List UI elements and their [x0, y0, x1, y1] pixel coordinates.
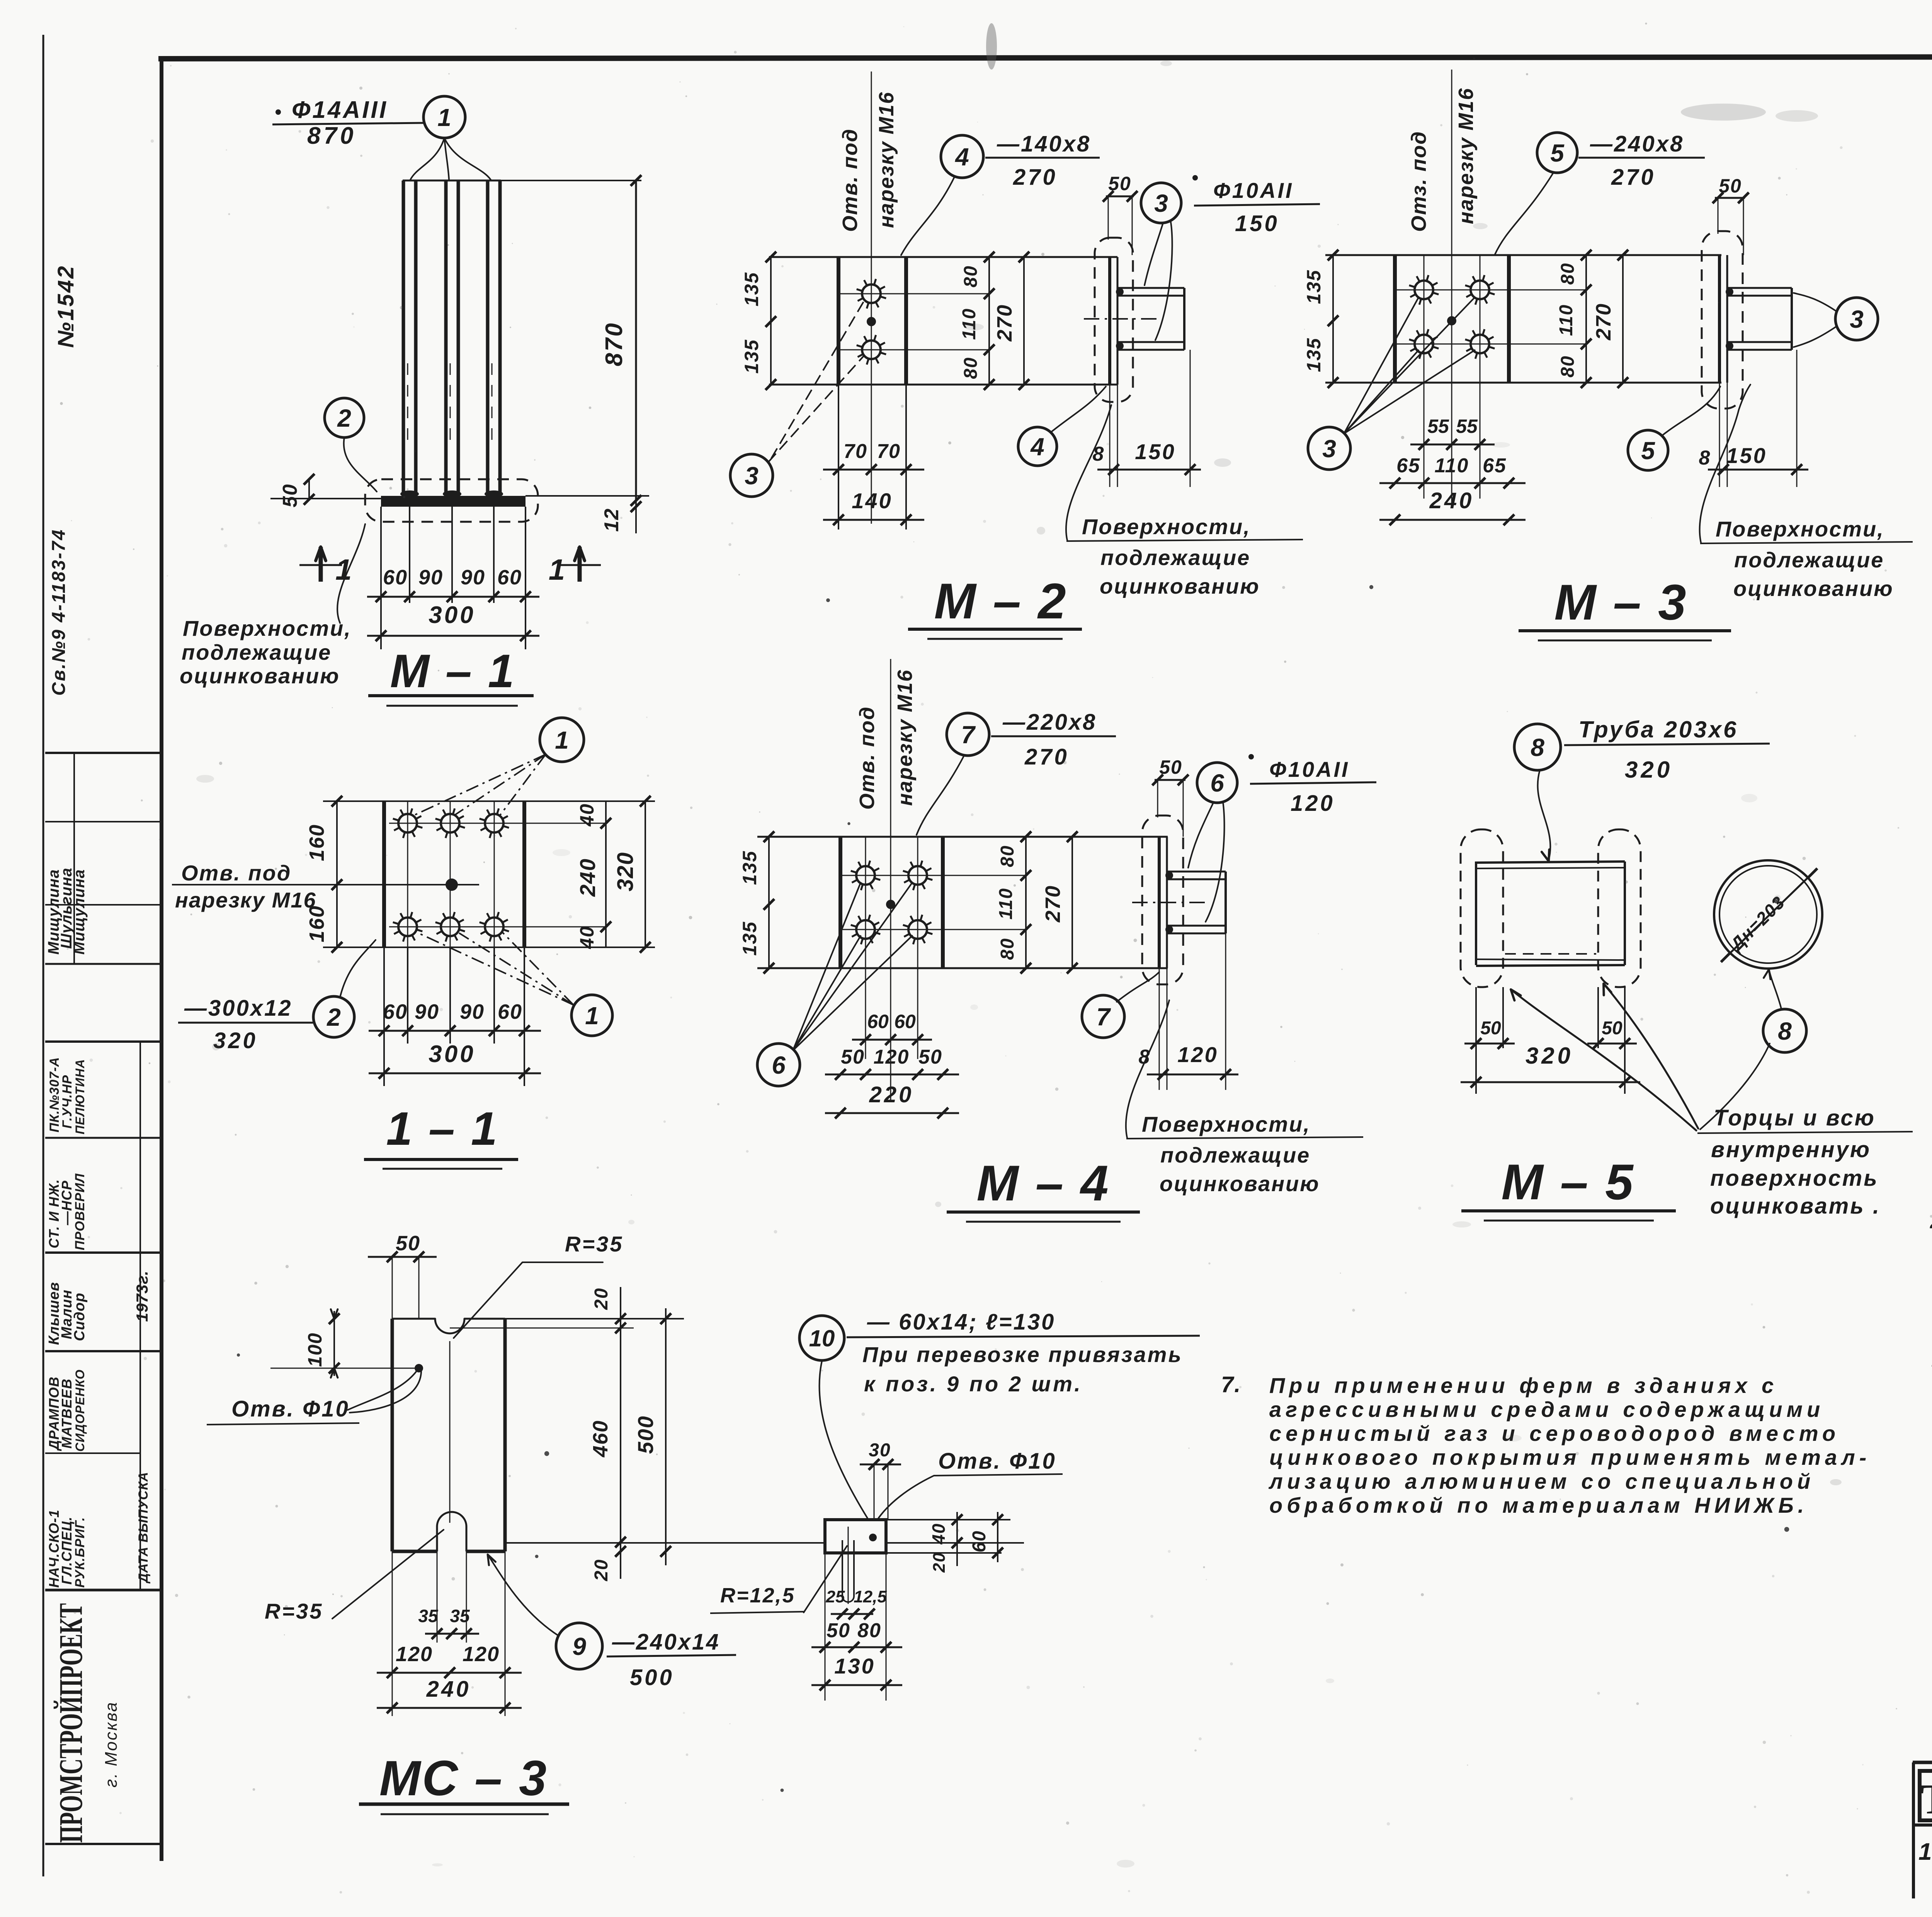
svg-text:140: 140: [852, 489, 892, 513]
svg-text:нарезку М16: нарезку М16: [175, 888, 316, 912]
svg-text:Сидор: Сидор: [71, 1292, 88, 1341]
svg-text:120: 120: [463, 1643, 500, 1666]
svg-text:870: 870: [307, 123, 356, 149]
svg-text:R=35: R=35: [565, 1232, 623, 1256]
svg-text:5: 5: [1641, 437, 1655, 465]
svg-text:80: 80: [857, 1619, 881, 1642]
svg-text:Торцы и всю: Торцы и всю: [1714, 1105, 1876, 1130]
svg-text:90: 90: [461, 566, 485, 589]
svg-text:подлежащие: подлежащие: [1160, 1143, 1310, 1167]
svg-text:—220x8: —220x8: [1002, 710, 1097, 735]
svg-text:1973г.: 1973г.: [133, 1270, 151, 1322]
svg-text:80: 80: [997, 845, 1018, 867]
svg-text:9: 9: [572, 1633, 586, 1660]
svg-text:М – 2: М – 2: [934, 573, 1067, 629]
svg-text:ПЕЛЮТИНА: ПЕЛЮТИНА: [73, 1059, 87, 1134]
svg-text:8: 8: [1093, 443, 1105, 465]
svg-text:8: 8: [1778, 1017, 1792, 1045]
svg-text:2: 2: [337, 404, 351, 432]
svg-text:60: 60: [969, 1530, 990, 1552]
svg-text:55: 55: [1456, 415, 1478, 437]
svg-text:90: 90: [418, 566, 443, 589]
svg-text:При перевозке привязать: При перевозке привязать: [862, 1342, 1183, 1367]
svg-text:М – 5: М – 5: [1501, 1154, 1634, 1210]
svg-text:40: 40: [576, 803, 598, 827]
svg-text:Труба 203x6: Труба 203x6: [1578, 717, 1738, 742]
svg-text:сернистый газ и сероводород вм: сернистый газ и сероводород вместо: [1269, 1421, 1840, 1445]
svg-text:1973: 1973: [1918, 1839, 1932, 1865]
svg-text:35: 35: [450, 1606, 470, 1626]
svg-text:240: 240: [575, 858, 600, 897]
svg-text:ПРОВЕРИЛ: ПРОВЕРИЛ: [73, 1173, 87, 1250]
svg-text:70: 70: [844, 440, 867, 463]
svg-text:агрессивными средами содержа: агрессивными средами содержащими: [1269, 1397, 1824, 1422]
svg-text:20: 20: [591, 1559, 612, 1581]
svg-text:подлежащие: подлежащие: [1100, 545, 1250, 570]
svg-text:120: 120: [1177, 1042, 1218, 1067]
svg-text:50: 50: [1602, 1018, 1622, 1039]
svg-text:1 – 1: 1 – 1: [386, 1102, 498, 1155]
svg-text:ПРОМСТРОЙПРОЕКТ: ПРОМСТРОЙПРОЕКТ: [52, 1603, 89, 1843]
svg-text:150: 150: [1235, 211, 1279, 236]
svg-text:220: 220: [869, 1082, 914, 1107]
svg-text:РУК.БРИГ.: РУК.БРИГ.: [73, 1517, 87, 1588]
svg-text:150: 150: [1726, 443, 1767, 468]
svg-text:60: 60: [383, 1000, 408, 1023]
svg-text:Отз. под: Отз. под: [1407, 131, 1430, 232]
svg-text:135: 135: [741, 339, 762, 373]
svg-text:50: 50: [918, 1046, 942, 1068]
svg-text:130: 130: [834, 1654, 875, 1678]
svg-text:к поз. 9 по 2 шт.: к поз. 9 по 2 шт.: [864, 1372, 1083, 1396]
svg-text:120: 120: [874, 1046, 910, 1068]
svg-text:120: 120: [1291, 791, 1335, 816]
svg-text:МАТВЕЕВ: МАТВЕЕВ: [59, 1379, 75, 1449]
svg-text:320: 320: [213, 1028, 258, 1053]
svg-text:8: 8: [1531, 734, 1544, 761]
svg-text:М – 3: М – 3: [1554, 574, 1687, 630]
svg-text:цинкового покрытия применять м: цинкового покрытия применять метал-: [1269, 1445, 1871, 1469]
svg-text:50: 50: [279, 484, 301, 507]
svg-text:110: 110: [1556, 304, 1577, 336]
svg-text:3: 3: [1154, 189, 1168, 217]
svg-text:подлежащие: подлежащие: [1734, 548, 1884, 572]
svg-text:320: 320: [1526, 1043, 1573, 1069]
svg-text:5: 5: [1550, 139, 1565, 167]
svg-text:1: 1: [585, 1002, 599, 1030]
svg-text:80: 80: [997, 938, 1018, 960]
svg-text:ГЛ.СПЕЦ.: ГЛ.СПЕЦ.: [59, 1516, 75, 1585]
svg-text:8: 8: [1699, 447, 1711, 469]
svg-text:оцинкованию: оцинкованию: [1100, 574, 1260, 598]
svg-text:150: 150: [1135, 439, 1175, 464]
svg-text:СИДОРЕНКО: СИДОРЕНКО: [73, 1369, 87, 1452]
svg-text:г. Москва: г. Москва: [102, 1701, 121, 1788]
svg-text:3: 3: [745, 462, 759, 490]
svg-text:Отв. под: Отв. под: [838, 128, 862, 232]
svg-text:110: 110: [996, 888, 1016, 920]
svg-text:60: 60: [383, 566, 408, 589]
svg-text:300: 300: [429, 602, 475, 628]
svg-text:7.: 7.: [1221, 1372, 1241, 1397]
svg-text:120: 120: [396, 1643, 433, 1666]
svg-text:оцинковать .: оцинковать .: [1710, 1193, 1881, 1219]
svg-text:80: 80: [1558, 262, 1578, 284]
svg-text:Мищулина: Мищулина: [71, 869, 88, 955]
svg-text:240: 240: [1429, 488, 1474, 513]
svg-text:270: 270: [1041, 885, 1065, 923]
svg-text:270: 270: [1024, 744, 1069, 770]
svg-text:7: 7: [961, 721, 976, 749]
svg-text:135: 135: [741, 272, 762, 306]
svg-text:нарезку М16: нарезку М16: [1454, 88, 1478, 224]
svg-text:135: 135: [1303, 337, 1325, 372]
svg-text:—НСР: —НСР: [59, 1180, 75, 1226]
svg-text:МС – 3: МС – 3: [379, 1751, 548, 1806]
svg-text:оцинкованию: оцинкованию: [1733, 576, 1894, 601]
svg-text:40: 40: [576, 926, 598, 949]
svg-text:№1542: №1542: [53, 265, 78, 348]
svg-text:12: 12: [600, 508, 623, 532]
svg-text:8: 8: [1139, 1046, 1151, 1068]
svg-text:R=12,5: R=12,5: [720, 1584, 795, 1607]
svg-text:обработкой по материалам НИ: обработкой по материалам НИИЖБ.: [1269, 1493, 1808, 1517]
svg-text:М – 1: М – 1: [390, 645, 515, 697]
svg-text:20: 20: [930, 1552, 949, 1573]
svg-text:135: 135: [1303, 269, 1325, 304]
svg-text:М – 4: М – 4: [976, 1155, 1110, 1211]
svg-text:30: 30: [869, 1440, 891, 1461]
svg-text:500: 500: [633, 1415, 658, 1454]
svg-text:90: 90: [415, 1000, 439, 1023]
svg-text:40: 40: [929, 1523, 949, 1544]
svg-text:1: 1: [549, 553, 565, 586]
svg-text:300: 300: [429, 1041, 475, 1067]
svg-text:лизацию алюминием со специа: лизацию алюминием со специальной: [1268, 1469, 1815, 1493]
svg-text:поверхность: поверхность: [1710, 1166, 1879, 1191]
svg-text:80: 80: [961, 357, 981, 379]
svg-text:100: 100: [304, 1332, 326, 1367]
svg-text:—240x8: —240x8: [1590, 131, 1684, 157]
svg-text:60: 60: [497, 566, 522, 589]
svg-text:60: 60: [867, 1011, 889, 1032]
svg-text:70: 70: [877, 440, 901, 463]
svg-text:7: 7: [1096, 1003, 1111, 1031]
svg-text:6: 6: [772, 1051, 786, 1079]
svg-text:135: 135: [739, 921, 760, 955]
svg-text:ТК: ТК: [1920, 1776, 1932, 1823]
svg-text:— 60x14; ℓ=130: — 60x14; ℓ=130: [867, 1309, 1055, 1335]
svg-text:оцинкованию: оцинкованию: [180, 664, 340, 688]
svg-text:60: 60: [894, 1011, 916, 1032]
svg-text:50: 50: [1480, 1018, 1501, 1039]
svg-text:Отв. под: Отв. под: [855, 706, 879, 810]
svg-text:подлежащие: подлежащие: [182, 640, 332, 664]
svg-text:50: 50: [396, 1232, 420, 1255]
svg-text:10: 10: [809, 1326, 835, 1352]
svg-text:270: 270: [993, 304, 1016, 342]
svg-text:240: 240: [426, 1677, 471, 1702]
svg-text:270: 270: [1611, 165, 1656, 190]
svg-text:Поверхности,: Поверхности,: [1082, 514, 1251, 539]
svg-text:Ф14АIII: Ф14АIII: [292, 97, 388, 123]
svg-text:Поверхности,: Поверхности,: [183, 616, 352, 640]
svg-text:320: 320: [613, 852, 638, 892]
svg-text:50: 50: [841, 1046, 865, 1068]
svg-text:1: 1: [437, 104, 451, 131]
svg-text:—240x14: —240x14: [612, 1629, 720, 1655]
svg-text:Ф10АII: Ф10АII: [1213, 178, 1294, 203]
svg-text:нарезку М16: нарезку М16: [875, 92, 898, 228]
svg-text:Отв. Ф10: Отв. Ф10: [938, 1449, 1056, 1474]
svg-text:оцинкованию: оцинкованию: [1160, 1171, 1320, 1196]
svg-text:нарезку М16: нарезку М16: [893, 669, 917, 806]
svg-text:—140x8: —140x8: [997, 131, 1091, 157]
svg-text:80: 80: [1558, 355, 1578, 377]
svg-text:90: 90: [460, 1000, 485, 1023]
svg-text:320: 320: [1625, 757, 1673, 783]
svg-text:3: 3: [1322, 435, 1336, 463]
svg-text:Св.№9 4-1183-74: Св.№9 4-1183-74: [49, 529, 69, 696]
svg-text:4: 4: [1030, 433, 1044, 461]
svg-text:Г.УЧ.НР: Г.УЧ.НР: [60, 1075, 75, 1129]
svg-text:55: 55: [1427, 415, 1449, 437]
svg-text:135: 135: [739, 850, 760, 885]
svg-text:870: 870: [601, 322, 628, 366]
svg-text:Поверхности,: Поверхности,: [1716, 517, 1884, 541]
svg-text:65: 65: [1396, 455, 1420, 477]
svg-text:65: 65: [1483, 455, 1507, 477]
svg-text:80: 80: [961, 265, 981, 287]
svg-text:20: 20: [591, 1287, 612, 1310]
svg-text:Отв. под: Отв. под: [181, 861, 291, 885]
svg-text:ДАТА ВЫПУСКА: ДАТА ВЫПУСКА: [136, 1472, 151, 1584]
svg-text:3: 3: [1850, 305, 1864, 333]
svg-text:12,5: 12,5: [854, 1587, 887, 1606]
svg-text:25: 25: [826, 1587, 845, 1606]
svg-text:50: 50: [827, 1619, 850, 1642]
svg-text:внутренную: внутренную: [1711, 1137, 1871, 1162]
svg-text:Ф10АII: Ф10АII: [1269, 757, 1350, 781]
svg-text:460: 460: [589, 1420, 612, 1457]
svg-text:—300x12: —300x12: [184, 996, 293, 1021]
svg-text:270: 270: [1592, 303, 1615, 340]
svg-text:R=35: R=35: [265, 1599, 323, 1623]
svg-text:500: 500: [630, 1665, 674, 1690]
svg-text:4: 4: [954, 143, 969, 171]
svg-text:35: 35: [418, 1606, 439, 1626]
svg-text:160: 160: [305, 824, 328, 861]
svg-text:110: 110: [1435, 455, 1469, 477]
svg-text:6: 6: [1210, 769, 1224, 797]
svg-text:Поверхности,: Поверхности,: [1142, 1112, 1311, 1136]
svg-text:270: 270: [1013, 165, 1058, 190]
svg-text:1: 1: [555, 726, 569, 754]
svg-text:При применении ферм в зданиях: При применении ферм в зданиях с: [1269, 1373, 1778, 1398]
svg-text:2.: 2.: [1930, 1210, 1932, 1233]
svg-text:60: 60: [498, 1000, 522, 1023]
svg-text:2: 2: [327, 1003, 341, 1031]
